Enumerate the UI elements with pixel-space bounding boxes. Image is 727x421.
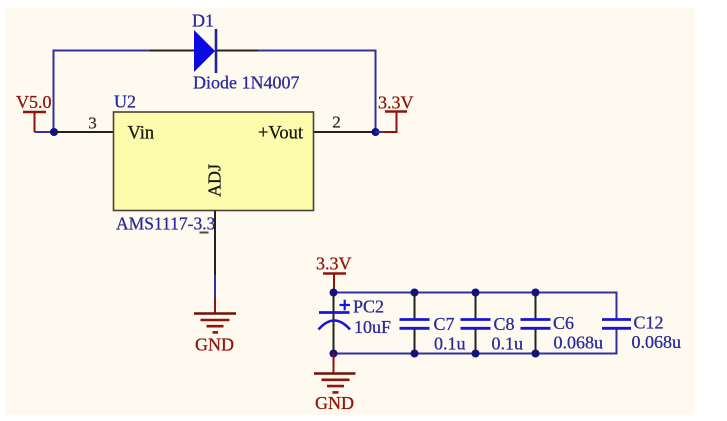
svg-text:C6: C6 — [553, 313, 574, 333]
svg-text:+Vout: +Vout — [258, 124, 304, 144]
svg-text:0.068u: 0.068u — [554, 333, 604, 353]
svg-text:3: 3 — [88, 114, 97, 133]
svg-text:PC2: PC2 — [353, 297, 384, 317]
svg-text:GND: GND — [315, 393, 354, 413]
svg-text:3.3V: 3.3V — [378, 93, 414, 113]
svg-text:D1: D1 — [192, 11, 214, 31]
svg-text:ADJ: ADJ — [205, 164, 225, 197]
svg-text:GND: GND — [195, 335, 234, 355]
svg-text:Vin: Vin — [128, 124, 155, 144]
svg-text:2: 2 — [332, 113, 341, 132]
svg-text:U2: U2 — [114, 92, 136, 112]
svg-text:10uF: 10uF — [354, 317, 391, 337]
svg-text:3.3V: 3.3V — [316, 254, 352, 274]
svg-text:V5.0: V5.0 — [16, 92, 52, 112]
svg-text:0.1u: 0.1u — [492, 334, 524, 354]
svg-text:0.1u: 0.1u — [434, 334, 466, 354]
svg-text:C12: C12 — [634, 313, 664, 333]
svg-text:C7: C7 — [434, 314, 455, 334]
svg-text:C8: C8 — [494, 314, 515, 334]
svg-text:AMS1117-3.3: AMS1117-3.3 — [116, 214, 216, 234]
svg-text:Diode 1N4007: Diode 1N4007 — [193, 73, 300, 93]
svg-text:0.068u: 0.068u — [632, 332, 682, 352]
